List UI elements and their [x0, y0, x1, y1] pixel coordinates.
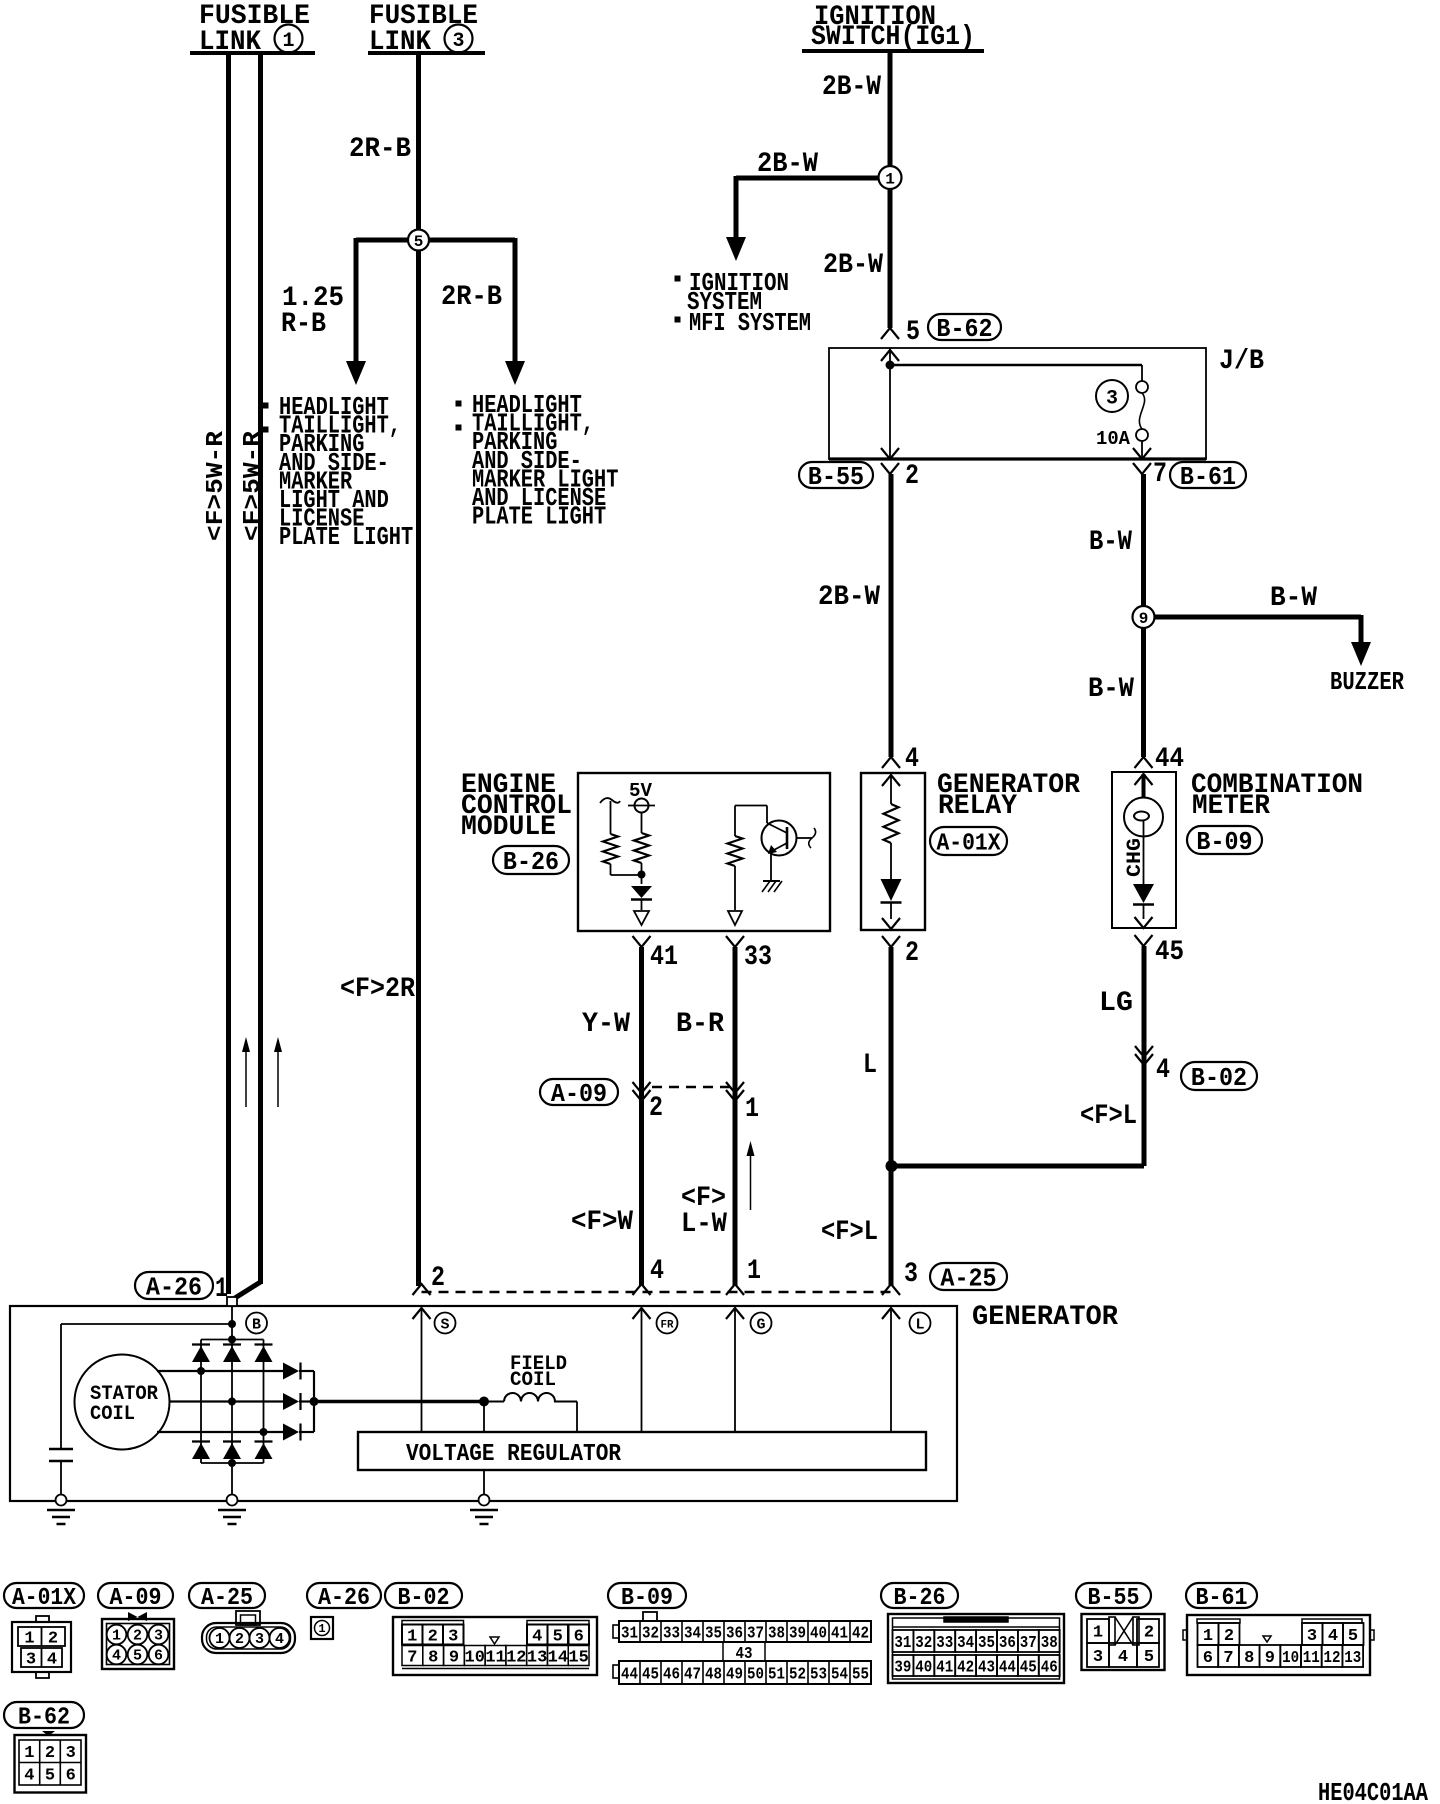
rectifier bridge top rail	[201, 1339, 264, 1341]
svg-text:12: 12	[506, 1648, 526, 1667]
inline connector B-02 double chevron	[1135, 1046, 1153, 1057]
svg-text:32: 32	[642, 1624, 659, 1643]
svg-text:5: 5	[45, 1766, 55, 1785]
fuse 3 top terminal (open circle)	[1136, 381, 1148, 393]
svg-text:A-09: A-09	[110, 1585, 162, 1612]
connector chevron at meter pin 45 (inside)	[1135, 917, 1153, 928]
relay coil resistor	[884, 804, 899, 843]
connector label B-61	[1170, 462, 1246, 488]
inline connector A-09 double chevron (pin 1)	[726, 1082, 744, 1093]
branch wire 1.25 R-B with arrow (to headlight/taillight)	[354, 238, 359, 363]
svg-text:2B-W: 2B-W	[818, 582, 880, 613]
svg-text:1: 1	[215, 1631, 224, 1648]
connector pinout B-26 label	[881, 1583, 958, 1608]
rectifier output rail	[313, 1371, 315, 1432]
ignition switch bus bar	[802, 49, 984, 53]
ground terminal circle (regulator)	[479, 1495, 490, 1506]
wire B-W from B-61 to node 9	[1141, 474, 1146, 606]
ground symbol (bridge)	[218, 1509, 246, 1512]
svg-text:B-55: B-55	[1088, 1585, 1140, 1612]
bridge column 1	[200, 1340, 202, 1464]
svg-text:13: 13	[1344, 1649, 1361, 1668]
svg-text:37: 37	[1020, 1634, 1037, 1653]
svg-text:6: 6	[1203, 1649, 1213, 1668]
ECM left pull-up branch squiggle	[600, 798, 620, 803]
svg-text:36: 36	[999, 1634, 1016, 1653]
stator phase line 2	[169, 1400, 283, 1402]
svg-text:LG: LG	[1099, 988, 1133, 1019]
ground terminal circle (bridge)	[227, 1495, 238, 1506]
ECM open triangle terminal (pin 33)	[728, 911, 742, 925]
svg-text:44: 44	[999, 1658, 1016, 1677]
svg-text:2B-W: 2B-W	[823, 250, 883, 281]
capacitor	[49, 1448, 73, 1451]
svg-text:A-25: A-25	[201, 1585, 253, 1612]
svg-text:B-61: B-61	[1180, 462, 1236, 492]
svg-text:1: 1	[24, 1629, 34, 1648]
svg-text:VOLTAGE REGULATOR: VOLTAGE REGULATOR	[406, 1441, 622, 1468]
connector pinout B-02 drawing	[393, 1617, 597, 1675]
connector pinout A-09 label	[98, 1583, 173, 1608]
svg-text:46: 46	[663, 1665, 680, 1684]
relay diode	[881, 879, 902, 901]
svg-text:53: 53	[810, 1665, 827, 1684]
svg-text:7: 7	[407, 1648, 417, 1667]
stator coil circle	[75, 1355, 170, 1450]
connector label B-02	[1181, 1062, 1257, 1090]
ECM right resistor	[728, 836, 743, 866]
svg-text:<F>5W-R: <F>5W-R	[203, 430, 230, 541]
svg-text:13: 13	[527, 1648, 547, 1667]
svg-text:L: L	[915, 1317, 924, 1334]
svg-text:MFI SYSTEM: MFI SYSTEM	[689, 308, 811, 338]
bridge diodes bottom row (pointing up)	[192, 1443, 210, 1459]
svg-text:<F>W: <F>W	[571, 1207, 633, 1238]
generator pin S internal wire	[421, 1308, 423, 1432]
connector chevron at relay pin 4 (inside)	[882, 775, 900, 786]
connector chevron ECM pin 33	[726, 936, 744, 947]
wire L continues to generator pin L (A-25 pin 3)	[889, 1166, 894, 1286]
connector pinout A-26 label	[307, 1583, 381, 1608]
node 5 circle	[408, 230, 429, 251]
svg-text:3: 3	[66, 1744, 76, 1763]
svg-text:B-61: B-61	[1196, 1585, 1248, 1612]
connector label A-09	[540, 1079, 618, 1105]
svg-text:5: 5	[1144, 1648, 1154, 1667]
charge warning lamp CHG (bulb symbol)	[1124, 798, 1163, 837]
svg-text:MODULE: MODULE	[461, 812, 556, 843]
svg-text:12: 12	[1324, 1649, 1341, 1668]
wire Y-W from ECM pin 41	[639, 947, 644, 1286]
svg-text:1: 1	[318, 1622, 325, 1636]
svg-text:4: 4	[47, 1650, 57, 1669]
svg-text:2: 2	[133, 1628, 142, 1645]
svg-text:8: 8	[428, 1648, 438, 1667]
connector label A-01X	[930, 827, 1007, 855]
ECM left resistor	[603, 834, 618, 864]
svg-text:41: 41	[936, 1658, 953, 1677]
svg-text:45: 45	[642, 1665, 659, 1684]
connector label B-09	[1187, 826, 1262, 854]
wire L from relay pin 2 down to junction	[889, 947, 894, 1166]
ECM transistor collector squiggle (right)	[797, 837, 813, 839]
svg-text:B-26: B-26	[503, 847, 559, 877]
svg-text:3: 3	[904, 1259, 918, 1290]
ECM transistor ground (chassis)	[763, 880, 780, 882]
generator pin S circled letter	[435, 1313, 456, 1334]
svg-text:32: 32	[915, 1634, 932, 1653]
svg-text:36: 36	[726, 1624, 743, 1643]
svg-text:44: 44	[621, 1665, 638, 1684]
svg-text:2R-B: 2R-B	[441, 282, 502, 313]
svg-text:2: 2	[649, 1093, 663, 1124]
svg-text:9: 9	[1139, 610, 1149, 628]
generator pin FR internal wire	[641, 1308, 643, 1432]
svg-text:40: 40	[810, 1624, 827, 1643]
fuse element (wavy line)	[1139, 393, 1144, 429]
svg-text:A-25: A-25	[940, 1263, 996, 1293]
generator pin L chevron inside box	[882, 1308, 900, 1319]
connector pinout B-62 drawing	[15, 1735, 87, 1793]
svg-text:1: 1	[215, 1274, 228, 1305]
wire from pin B to capacitor branch	[61, 1323, 232, 1325]
connector chevron A-25 pin 2 (wire S)	[413, 1284, 431, 1295]
svg-text:METER: METER	[1192, 791, 1270, 822]
svg-text:37: 37	[747, 1624, 764, 1643]
circled number 3 (fusible link 3)	[445, 25, 473, 53]
connector label B-55	[799, 462, 873, 488]
connector chevron at relay pin 2 (outside)	[882, 936, 900, 947]
svg-text:6: 6	[574, 1627, 584, 1646]
connector chevron A-25 pin 1	[726, 1284, 744, 1295]
field coil junction wire to regulator	[483, 1402, 485, 1433]
svg-text:2: 2	[905, 938, 919, 969]
A-26 pin terminal (open square)	[227, 1297, 237, 1306]
node 9 circle	[1133, 606, 1155, 628]
wire <F>L horizontal to junction with L wire	[891, 1164, 1144, 1169]
svg-text:L: L	[863, 1050, 877, 1081]
bridge diodes top row (pointing up)	[192, 1346, 210, 1362]
svg-text:4: 4	[275, 1631, 284, 1648]
connector chevron B-55 exit inside J/B	[881, 448, 899, 459]
splice branch bar at node 5	[356, 238, 515, 243]
svg-text:B-R: B-R	[676, 1009, 724, 1040]
svg-text:45: 45	[1155, 937, 1184, 968]
svg-text:GENERATOR: GENERATOR	[972, 1302, 1118, 1333]
ground terminal circle (capacitor)	[56, 1495, 67, 1506]
svg-text:B-09: B-09	[621, 1585, 673, 1612]
meter internal wire mid	[1143, 837, 1145, 885]
svg-text:2: 2	[1224, 1627, 1234, 1646]
ECM open triangle terminal (pin 41)	[634, 911, 649, 925]
connector pinout A-26 drawing	[311, 1617, 333, 1639]
svg-text:15: 15	[568, 1648, 588, 1667]
connector label A-26	[135, 1272, 213, 1299]
connector pinout B-09 pin 43 cell	[723, 1642, 765, 1661]
svg-text:39: 39	[789, 1624, 806, 1643]
svg-text:S: S	[440, 1317, 449, 1334]
connector chevron A-25 pin 4	[633, 1284, 651, 1295]
connector chevron B-61 exit inside J/B	[1133, 448, 1151, 459]
generator pin FR chevron inside box	[633, 1308, 651, 1319]
ground symbol (regulator)	[470, 1509, 498, 1512]
svg-text:1: 1	[282, 30, 294, 53]
svg-text:33: 33	[744, 942, 772, 973]
current direction arrow (wire B-R)	[750, 1152, 752, 1210]
svg-text:42: 42	[957, 1658, 974, 1677]
A-25 dashed connector line	[422, 1291, 892, 1293]
inline connector A-09 double chevron (pin 2)	[633, 1082, 651, 1093]
svg-text:55: 55	[852, 1665, 869, 1684]
svg-text:B-26: B-26	[894, 1585, 946, 1612]
svg-text:39: 39	[894, 1658, 911, 1677]
generator pin G circled letter	[751, 1313, 772, 1334]
generator pin FR circled letter	[657, 1313, 678, 1334]
svg-text:2: 2	[428, 1627, 438, 1646]
svg-text:A-09: A-09	[551, 1079, 607, 1109]
svg-text:1: 1	[1093, 1623, 1103, 1642]
connector chevron at relay pin 4 (outside)	[882, 757, 900, 768]
connector pinout A-25 drawing	[236, 1611, 260, 1625]
connector chevron at relay pin 2 (inside)	[882, 918, 900, 929]
branch wire 2R-B with arrow (to headlight/taillight)	[513, 238, 518, 363]
svg-text:2: 2	[235, 1631, 244, 1648]
svg-text:1: 1	[885, 171, 895, 189]
svg-text:14: 14	[548, 1648, 568, 1667]
svg-text:A-26: A-26	[146, 1272, 202, 1302]
connector pinout A-01X label	[4, 1583, 84, 1608]
ground symbol (capacitor)	[47, 1509, 75, 1512]
svg-text:G: G	[756, 1317, 765, 1334]
fusible link 3 bus bar	[368, 51, 485, 55]
svg-text:6: 6	[66, 1766, 76, 1785]
svg-text:34: 34	[684, 1624, 701, 1643]
svg-text:6: 6	[154, 1648, 163, 1665]
svg-text:50: 50	[747, 1665, 764, 1684]
svg-text:B-09: B-09	[1196, 827, 1252, 857]
svg-text:34: 34	[957, 1634, 974, 1653]
svg-text:5: 5	[553, 1627, 563, 1646]
svg-text:8: 8	[1244, 1649, 1254, 1668]
ECM right input wire (pin 33)	[734, 806, 736, 837]
svg-text:2: 2	[905, 461, 919, 492]
connector chevron A-25 pin 3	[882, 1284, 900, 1295]
svg-text:4: 4	[532, 1627, 542, 1646]
connector chevron at meter pin 44 (outside)	[1135, 757, 1153, 768]
svg-text:52: 52	[789, 1665, 806, 1684]
svg-text:40: 40	[915, 1658, 932, 1677]
node 1 circle	[879, 166, 902, 189]
connector pinout B-09 drawing (row 44-55)	[619, 1661, 871, 1684]
svg-text:B-W: B-W	[1270, 583, 1317, 614]
branch wire B-W to buzzer with arrow	[1154, 615, 1361, 620]
svg-text:51: 51	[768, 1665, 785, 1684]
svg-text:38: 38	[768, 1624, 785, 1643]
svg-text:B-62: B-62	[18, 1704, 70, 1731]
generator pin B circled letter	[246, 1313, 267, 1334]
connector pinout B-55 label	[1076, 1583, 1151, 1608]
svg-text:<F>L: <F>L	[821, 1217, 878, 1248]
connector pinout A-01X drawing	[12, 1622, 71, 1672]
svg-text:3: 3	[1093, 1648, 1103, 1667]
stator phase line 1	[157, 1370, 283, 1372]
svg-text:3: 3	[452, 30, 464, 53]
connector chevron ECM pin 41	[633, 936, 651, 947]
svg-text:COIL: COIL	[510, 1369, 556, 1392]
svg-text:2: 2	[1144, 1623, 1154, 1642]
svg-text:10A: 10A	[1096, 428, 1131, 450]
current direction arrow (left wire)	[245, 1048, 247, 1107]
junction dot on wire L	[886, 1160, 898, 1172]
branch wire 2B-W to ignition system / MFI system with arrow	[736, 176, 879, 181]
svg-text:B-62: B-62	[936, 314, 992, 344]
svg-text:45: 45	[1020, 1658, 1037, 1677]
relay internal wire top	[890, 775, 892, 804]
stator phase line 3	[157, 1431, 283, 1433]
connector chevron B-55 below J/B	[881, 463, 899, 474]
svg-text:<F>2R: <F>2R	[340, 974, 415, 1005]
svg-text:2: 2	[48, 1629, 58, 1648]
svg-text:42: 42	[852, 1624, 869, 1643]
connector pinout B-26 drawing	[888, 1614, 1064, 1683]
svg-text:B-W: B-W	[1088, 674, 1134, 705]
svg-text:4: 4	[1328, 1627, 1338, 1646]
connector chevron at J/B top entry	[881, 350, 899, 361]
ECM junction dot	[638, 871, 646, 879]
ECM middle wire from 5V	[641, 813, 643, 834]
svg-text:41: 41	[650, 942, 678, 973]
connector pinout B-55 drawing	[1082, 1614, 1165, 1670]
connector pinout A-09 drawing	[102, 1619, 174, 1669]
svg-text:10: 10	[465, 1648, 485, 1667]
svg-text:44: 44	[1155, 744, 1184, 775]
svg-text:3: 3	[1106, 387, 1118, 410]
svg-text:1: 1	[747, 1256, 761, 1287]
svg-text:54: 54	[831, 1665, 848, 1684]
output diodes (pointing right)	[283, 1363, 299, 1380]
svg-text:4: 4	[24, 1766, 34, 1785]
junction dot inside J/B	[886, 361, 895, 370]
bridge column 3	[263, 1340, 265, 1464]
wire B-W from node 9 to meter pin 44	[1141, 628, 1146, 757]
fuse 3 bottom terminal (open circle)	[1136, 429, 1148, 441]
svg-text:9: 9	[1265, 1649, 1275, 1668]
svg-text:1: 1	[745, 1094, 759, 1125]
wire 2R-B from fusible link 3 to splice 5	[416, 53, 421, 231]
svg-text:L-W: L-W	[681, 1209, 727, 1240]
generator pin S chevron inside box	[413, 1308, 431, 1319]
meter diode	[1133, 884, 1154, 903]
generator pin L internal wire	[890, 1308, 892, 1432]
svg-text:31: 31	[621, 1624, 638, 1643]
svg-text:B: B	[252, 1317, 261, 1334]
svg-text:43: 43	[978, 1658, 995, 1677]
svg-text:31: 31	[894, 1634, 911, 1653]
svg-text:48: 48	[705, 1665, 722, 1684]
svg-text:38: 38	[1041, 1634, 1058, 1653]
wire LG from meter pin 45 to B-02	[1142, 946, 1147, 1166]
svg-text:R-B: R-B	[281, 309, 326, 340]
voltage regulator box	[358, 1432, 926, 1470]
svg-text:COIL: COIL	[90, 1403, 135, 1426]
bridge column 2	[231, 1340, 233, 1464]
svg-text:10: 10	[1282, 1649, 1299, 1668]
connector pinout B-09 label	[608, 1583, 686, 1608]
connector pinout B-61 label	[1186, 1583, 1257, 1608]
svg-text:B-55: B-55	[808, 462, 864, 492]
generator B+ internal wire	[231, 1306, 233, 1340]
ECM diode (to pin 41)	[631, 886, 652, 898]
junction block J/B box	[829, 348, 1206, 459]
svg-text:3: 3	[255, 1631, 264, 1648]
connector chevron B-61 below J/B	[1133, 463, 1151, 474]
connector label B-62	[928, 314, 1001, 340]
svg-text:2: 2	[45, 1744, 55, 1763]
svg-text:HE04C01AA: HE04C01AA	[1318, 1778, 1428, 1804]
capacitor branch wire	[60, 1324, 62, 1449]
svg-text:3: 3	[26, 1650, 36, 1669]
rectifier bridge bottom rail	[201, 1462, 264, 1464]
svg-text:A-26: A-26	[318, 1585, 370, 1612]
connector chevron at meter pin 44 (inside)	[1135, 774, 1153, 785]
connector chevron B-62 (above J/B)	[881, 328, 899, 339]
svg-text:FR: FR	[661, 1319, 674, 1331]
svg-text:A-01X: A-01X	[12, 1585, 77, 1612]
circled number 1 (fusible link 1)	[275, 25, 303, 53]
svg-text:PLATE LIGHT: PLATE LIGHT	[279, 522, 413, 552]
ECM 5V source circle	[635, 799, 649, 813]
svg-text:A-01X: A-01X	[937, 830, 1002, 857]
wire <F>5W-R right (fusible link 1 to generator pin B)	[258, 53, 263, 1284]
wire 2B-W from B-55 to generator relay pin 4	[889, 474, 894, 757]
meter internal wire top	[1142, 774, 1146, 798]
svg-text:<F>5W-R: <F>5W-R	[240, 430, 267, 541]
engine control module box	[578, 773, 830, 931]
svg-text:3: 3	[1307, 1627, 1317, 1646]
svg-text:1: 1	[112, 1628, 121, 1645]
svg-text:4: 4	[650, 1256, 664, 1287]
A-09 dashed connector line	[652, 1086, 730, 1088]
svg-text:5: 5	[1348, 1627, 1358, 1646]
generator output wire to field coil junction	[314, 1400, 484, 1404]
svg-text:B-02: B-02	[1191, 1063, 1247, 1093]
svg-text:4: 4	[1156, 1055, 1170, 1086]
svg-text:1: 1	[407, 1627, 417, 1646]
svg-text:B-W: B-W	[1089, 527, 1132, 558]
svg-text:41: 41	[831, 1624, 848, 1643]
wire <F>5W-R left (fusible link 1 to generator pin B)	[226, 53, 231, 1294]
wire inside J/B (vertical)	[889, 348, 891, 459]
generator pin L circled letter	[910, 1313, 931, 1334]
wire inside J/B to fuse 3	[890, 364, 1142, 367]
svg-text:2B-W: 2B-W	[822, 72, 881, 103]
svg-text:PLATE LIGHT: PLATE LIGHT	[472, 502, 606, 532]
svg-text:35: 35	[978, 1634, 995, 1653]
svg-text:2B-W: 2B-W	[757, 149, 818, 180]
svg-text:1: 1	[1203, 1627, 1213, 1646]
generator relay box	[861, 773, 925, 930]
connector pinout B-09 drawing (row 31-42)	[643, 1612, 657, 1621]
circled fuse number 3	[1096, 380, 1128, 412]
svg-text:SWITCH(IG1): SWITCH(IG1)	[811, 22, 975, 53]
svg-text:BUZZER: BUZZER	[1330, 667, 1404, 697]
svg-text:47: 47	[684, 1665, 701, 1684]
svg-text:3: 3	[154, 1628, 163, 1645]
generator pin G internal wire	[734, 1308, 736, 1432]
connector pinout B-02 label	[385, 1583, 462, 1608]
svg-text:33: 33	[936, 1634, 953, 1653]
svg-text:2R-B: 2R-B	[349, 134, 411, 165]
